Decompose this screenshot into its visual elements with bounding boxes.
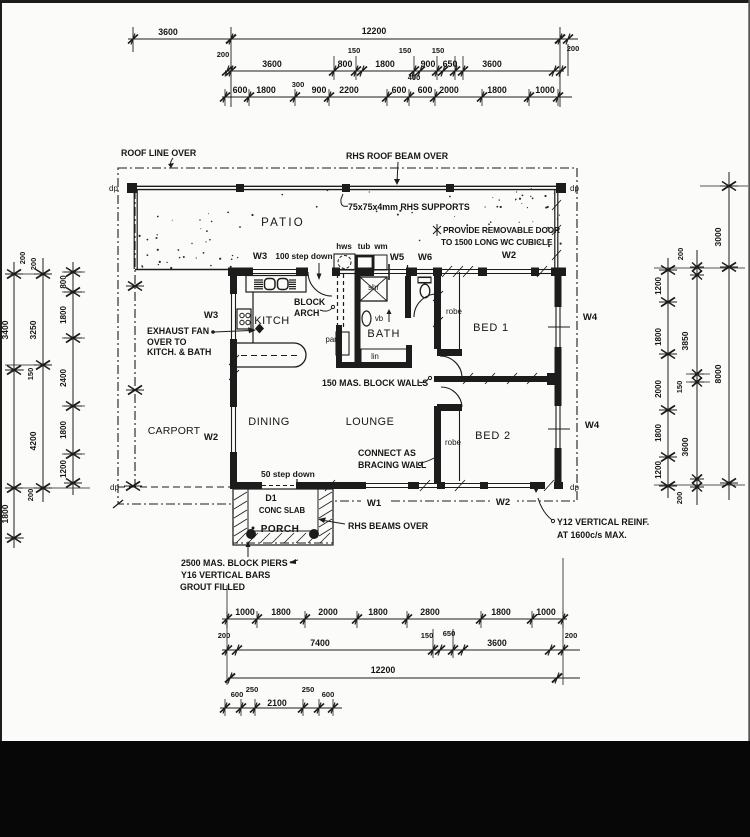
svg-text:2800: 2800: [420, 607, 440, 617]
svg-text:600: 600: [233, 85, 248, 95]
svg-text:W3: W3: [253, 251, 267, 262]
svg-text:800: 800: [338, 59, 353, 69]
svg-text:200: 200: [567, 44, 580, 53]
svg-text:W5: W5: [390, 252, 405, 263]
svg-text:pan: pan: [325, 335, 338, 344]
svg-text:BRACING WALL: BRACING WALL: [358, 460, 427, 470]
svg-text:3400: 3400: [0, 320, 10, 339]
svg-text:W4: W4: [583, 312, 598, 323]
svg-text:AT 1600c/s MAX.: AT 1600c/s MAX.: [557, 530, 627, 540]
svg-text:150: 150: [675, 381, 684, 394]
svg-text:200: 200: [26, 489, 35, 502]
svg-text:200: 200: [565, 631, 578, 640]
svg-text:200: 200: [675, 492, 684, 505]
svg-text:GROUT FILLED: GROUT FILLED: [180, 582, 245, 592]
svg-text:150: 150: [421, 631, 434, 640]
svg-text:3600: 3600: [262, 59, 282, 69]
svg-text:1200: 1200: [654, 277, 663, 295]
svg-text:dp: dp: [570, 483, 579, 492]
svg-text:CARPORT: CARPORT: [148, 425, 201, 437]
svg-text:75x75x4mm RHS SUPPORTS: 75x75x4mm RHS SUPPORTS: [348, 202, 470, 212]
svg-text:W6: W6: [418, 252, 432, 263]
svg-text:150: 150: [348, 46, 361, 55]
svg-text:RHS BEAMS OVER: RHS BEAMS OVER: [348, 521, 429, 531]
svg-text:150: 150: [432, 46, 445, 55]
svg-text:900: 900: [421, 59, 436, 69]
svg-text:1800: 1800: [0, 504, 10, 523]
svg-text:50 step down: 50 step down: [261, 469, 315, 479]
svg-text:CONNECT AS: CONNECT AS: [358, 448, 416, 458]
svg-text:7400: 7400: [310, 638, 330, 648]
svg-text:ROOF LINE OVER: ROOF LINE OVER: [121, 148, 197, 158]
svg-text:vb: vb: [375, 314, 384, 323]
svg-text:3850: 3850: [680, 331, 690, 350]
svg-text:KITCH. & BATH: KITCH. & BATH: [147, 347, 211, 357]
svg-text:200: 200: [676, 248, 685, 261]
svg-text:robe: robe: [446, 307, 463, 316]
svg-text:600: 600: [322, 690, 335, 699]
svg-text:D1: D1: [265, 493, 276, 503]
svg-text:W1: W1: [367, 498, 382, 509]
svg-text:600: 600: [418, 85, 433, 95]
svg-text:2100: 2100: [267, 698, 287, 708]
svg-text:Y12 VERTICAL REINF.: Y12 VERTICAL REINF.: [557, 517, 649, 527]
svg-text:OVER TO: OVER TO: [147, 337, 187, 347]
svg-text:shr: shr: [368, 283, 379, 292]
svg-text:8000: 8000: [713, 364, 723, 383]
svg-text:BED 1: BED 1: [473, 322, 509, 334]
svg-text:2000: 2000: [654, 380, 663, 398]
svg-text:150: 150: [399, 46, 412, 55]
svg-text:600: 600: [231, 690, 244, 699]
svg-text:200: 200: [29, 258, 38, 271]
svg-text:400: 400: [408, 73, 421, 82]
svg-text:3600: 3600: [482, 59, 502, 69]
svg-text:W2: W2: [496, 497, 510, 508]
svg-text:1800: 1800: [256, 85, 276, 95]
svg-text:TO 1500 LONG WC CUBICLE: TO 1500 LONG WC CUBICLE: [441, 237, 553, 247]
svg-text:W2: W2: [502, 250, 516, 261]
svg-text:PATIO: PATIO: [261, 217, 305, 229]
svg-text:4200: 4200: [28, 431, 38, 450]
svg-text:LOUNGE: LOUNGE: [346, 416, 395, 428]
svg-text:3600: 3600: [680, 437, 690, 456]
svg-text:3250: 3250: [28, 320, 38, 339]
svg-text:200: 200: [218, 631, 231, 640]
svg-text:W3: W3: [204, 310, 218, 321]
svg-text:1000: 1000: [235, 607, 255, 617]
svg-text:100 step down: 100 step down: [275, 251, 332, 261]
svg-text:lin: lin: [371, 352, 379, 361]
svg-text:EXHAUST FAN: EXHAUST FAN: [147, 326, 209, 336]
svg-text:1800: 1800: [491, 607, 511, 617]
svg-text:3600: 3600: [487, 638, 507, 648]
svg-text:1200: 1200: [59, 460, 68, 478]
svg-text:2400: 2400: [59, 369, 68, 387]
svg-text:3600: 3600: [158, 27, 178, 37]
svg-text:PORCH: PORCH: [261, 524, 300, 535]
svg-text:dp: dp: [109, 184, 118, 193]
svg-text:12200: 12200: [371, 665, 396, 675]
svg-text:tub: tub: [358, 242, 371, 251]
svg-text:BED 2: BED 2: [475, 430, 511, 442]
svg-text:BATH: BATH: [367, 328, 400, 340]
svg-text:1200: 1200: [654, 461, 663, 479]
svg-text:3000: 3000: [713, 227, 723, 246]
svg-text:1800: 1800: [368, 607, 388, 617]
svg-text:150 MAS. BLOCK WALLS: 150 MAS. BLOCK WALLS: [322, 378, 428, 388]
svg-text:hws: hws: [336, 242, 352, 251]
svg-text:1800: 1800: [271, 607, 291, 617]
svg-text:wm: wm: [373, 242, 387, 251]
svg-text:W2: W2: [204, 432, 218, 443]
svg-text:1800: 1800: [59, 421, 68, 439]
svg-text:12200: 12200: [362, 26, 387, 36]
svg-text:dp: dp: [110, 483, 119, 492]
svg-text:250: 250: [246, 685, 259, 694]
svg-text:2200: 2200: [339, 85, 359, 95]
svg-text:650: 650: [443, 59, 458, 69]
svg-text:1000: 1000: [535, 85, 555, 95]
svg-text:200: 200: [18, 252, 27, 265]
svg-text:800: 800: [59, 275, 68, 289]
svg-text:robe: robe: [445, 438, 462, 447]
svg-text:W4: W4: [585, 420, 600, 431]
svg-text:1800: 1800: [654, 328, 663, 346]
svg-text:250: 250: [302, 685, 315, 694]
svg-text:200: 200: [217, 50, 230, 59]
svg-text:Y16 VERTICAL BARS: Y16 VERTICAL BARS: [181, 570, 270, 580]
svg-text:600: 600: [392, 85, 407, 95]
svg-text:dp: dp: [570, 184, 579, 193]
svg-text:CONC SLAB: CONC SLAB: [259, 506, 306, 515]
svg-text:2500 MAS. BLOCK PIERS: 2500 MAS. BLOCK PIERS: [181, 558, 288, 568]
svg-text:1800: 1800: [487, 85, 507, 95]
svg-text:150: 150: [26, 368, 35, 381]
svg-text:KITCH: KITCH: [254, 315, 290, 327]
svg-text:300: 300: [292, 80, 305, 89]
svg-text:RHS ROOF BEAM OVER: RHS ROOF BEAM OVER: [346, 151, 449, 161]
svg-text:2000: 2000: [439, 85, 459, 95]
svg-text:ARCH: ARCH: [294, 308, 319, 318]
svg-text:1800: 1800: [654, 424, 663, 442]
svg-text:PROVIDE REMOVABLE DOOR: PROVIDE REMOVABLE DOOR: [443, 225, 560, 235]
svg-text:1800: 1800: [59, 306, 68, 324]
svg-text:900: 900: [312, 85, 327, 95]
svg-text:1000: 1000: [536, 607, 556, 617]
svg-text:DINING: DINING: [248, 416, 290, 428]
svg-text:BLOCK: BLOCK: [294, 297, 326, 307]
svg-text:1800: 1800: [375, 59, 395, 69]
svg-text:2000: 2000: [318, 607, 338, 617]
